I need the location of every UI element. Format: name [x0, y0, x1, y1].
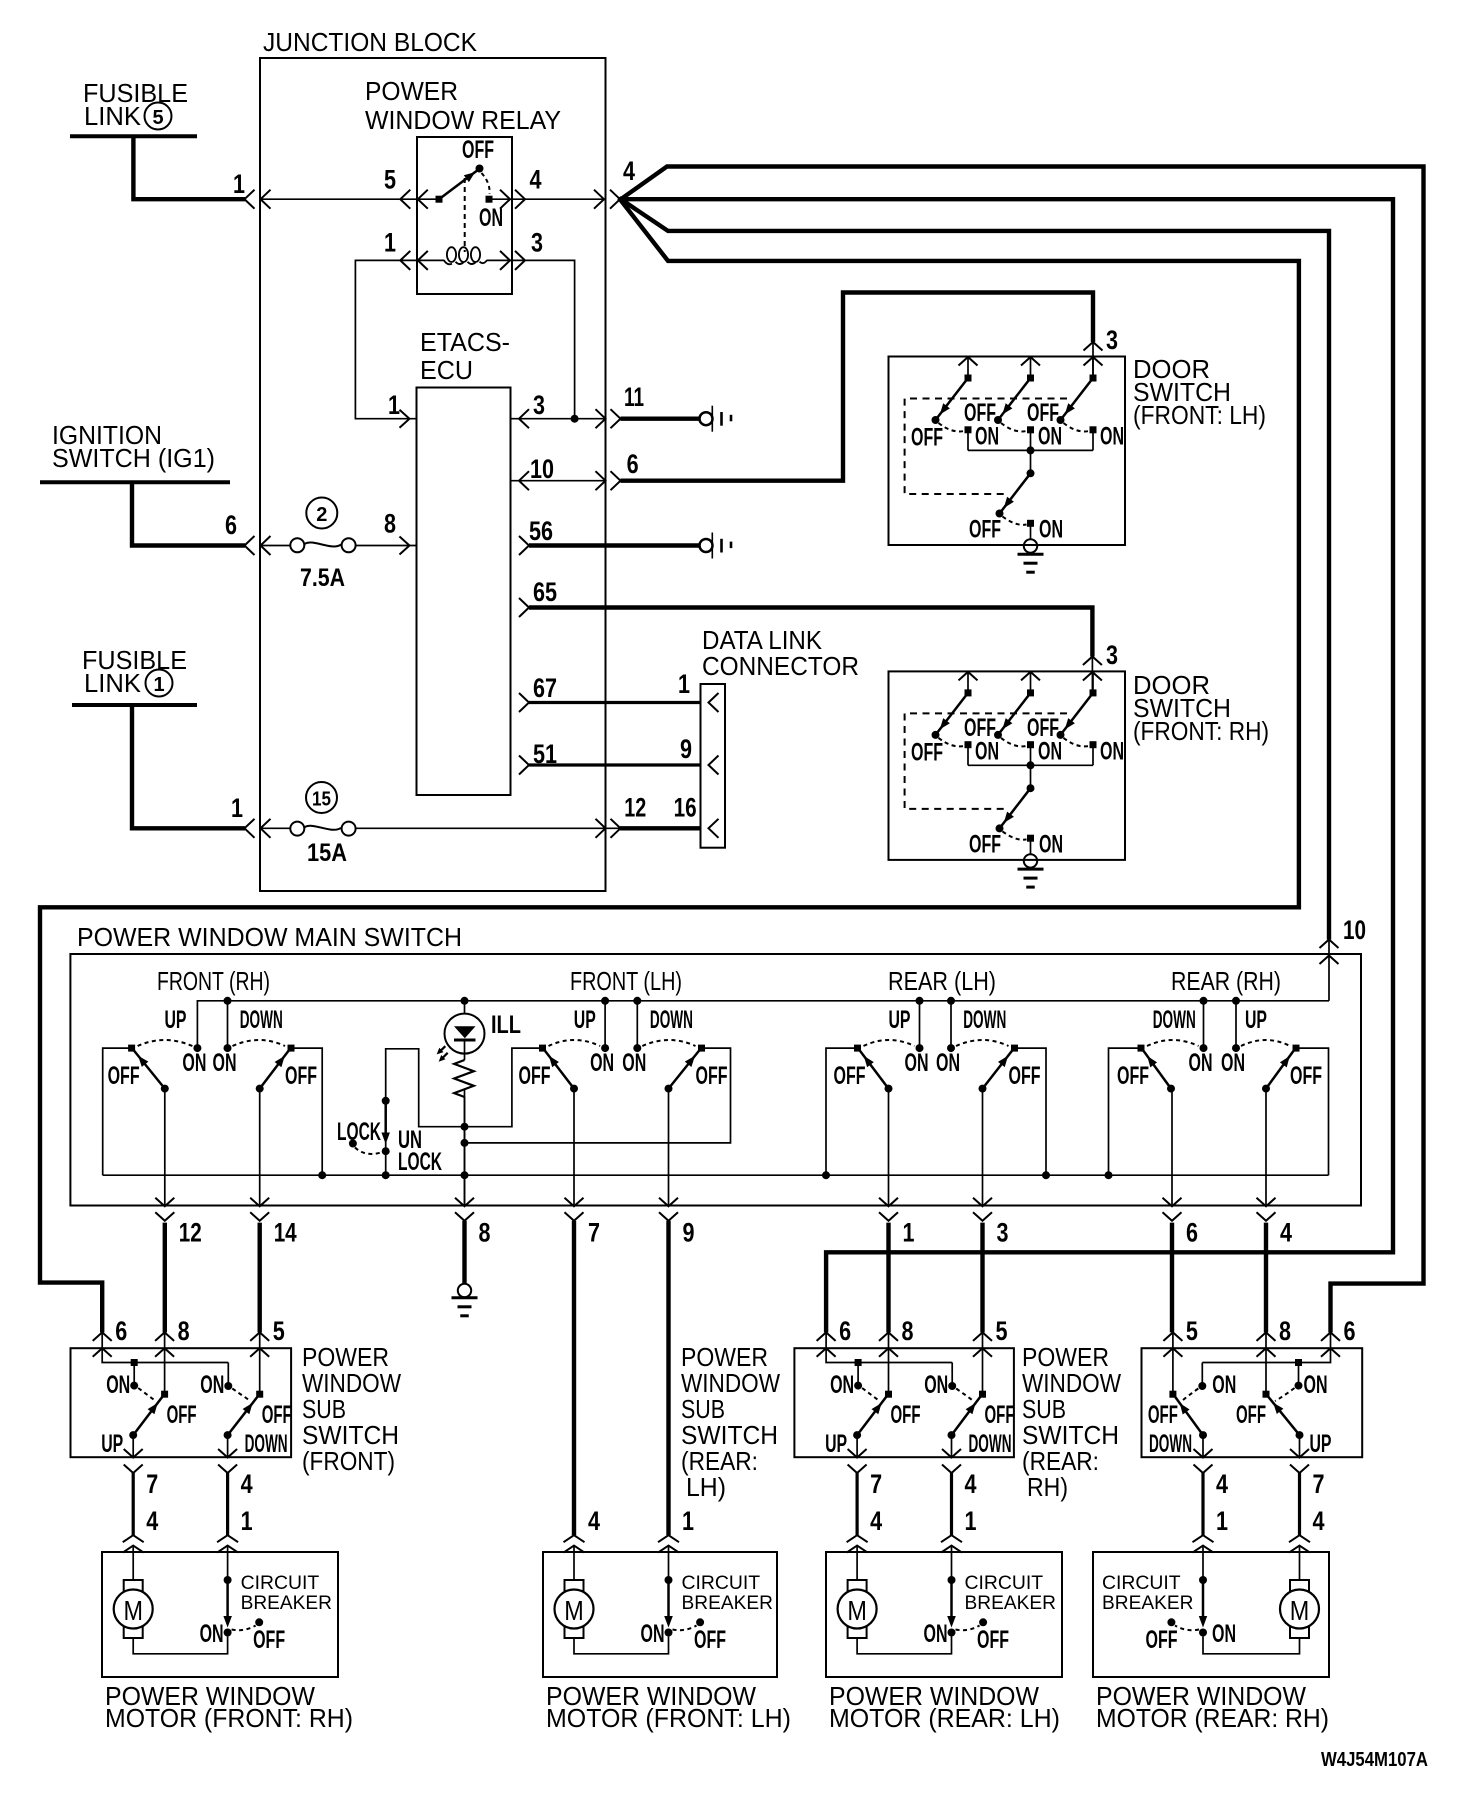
power window sub switch rear LH internal bus — [826, 1332, 952, 1362]
power window motor rear RH motor return wire — [1203, 1637, 1300, 1654]
svg-text:CIRCUIT: CIRCUIT — [965, 1572, 1044, 1594]
relay OFF contact — [476, 165, 484, 173]
svg-text:6: 6 — [225, 510, 237, 540]
svg-text:5: 5 — [1186, 1316, 1198, 1346]
relay switch pivot contact — [436, 196, 443, 203]
svg-text:DOWN: DOWN — [1149, 1430, 1192, 1458]
wire main switch 7 to front LH motor — [572, 1221, 576, 1535]
svg-text:10: 10 — [1343, 915, 1366, 945]
ECU pin 3 wire to connector — [510, 418, 605, 420]
svg-text:1: 1 — [1216, 1506, 1228, 1536]
fusible link 5 supply bar — [70, 134, 197, 138]
svg-text:4: 4 — [588, 1506, 600, 1536]
wire junction block to relay pin 5 — [262, 198, 437, 200]
door switch RH plunger pin 2 — [1021, 672, 1040, 681]
svg-text:ON: ON — [200, 1371, 224, 1399]
chevron into DLC pin 16 — [709, 819, 719, 838]
power window motor front LH motor symbol — [565, 1580, 584, 1638]
svg-text:8: 8 — [1279, 1316, 1291, 1346]
main switch front RH box — [103, 1048, 132, 1175]
svg-text:ON: ON — [590, 1049, 614, 1077]
svg-text:67: 67 — [533, 673, 557, 703]
svg-text:OFF: OFF — [462, 136, 494, 164]
svg-text:3: 3 — [531, 228, 543, 258]
svg-text:OFF: OFF — [285, 1062, 317, 1090]
svg-text:ON: ON — [1039, 830, 1063, 858]
main switch front LH contacts — [539, 1045, 546, 1052]
ECU pin 67 wire to DLC pin 1 — [519, 693, 529, 712]
svg-text:1: 1 — [965, 1506, 977, 1536]
svg-text:W4J54M107A: W4J54M107A — [1321, 1749, 1428, 1771]
ECU pin 51 wire to DLC pin 9 — [519, 756, 529, 775]
fuse 15 circle label — [306, 782, 337, 813]
svg-text:OFF: OFF — [834, 1062, 866, 1090]
svg-text:ON: ON — [182, 1049, 206, 1077]
svg-text:DOWN: DOWN — [969, 1430, 1012, 1458]
data link connector box — [701, 684, 726, 848]
door switch RH ON contact 2 — [1027, 741, 1034, 748]
power window sub switch rear RH switch arms — [1296, 1431, 1304, 1439]
main switch front LH switch arms — [570, 1085, 578, 1093]
svg-text:CIRCUIT: CIRCUIT — [1102, 1572, 1181, 1594]
wire relay pin1 to ECU pin1 — [355, 260, 417, 418]
svg-text:OFF: OFF — [1146, 1626, 1178, 1654]
power window sub switch rear LH dashed arcs — [862, 1388, 879, 1401]
relay ON contact — [486, 196, 493, 203]
svg-text:ETACS-: ETACS- — [420, 327, 510, 357]
main switch front RH contacts — [128, 1045, 135, 1052]
svg-text:ON: ON — [1038, 423, 1062, 451]
svg-text:(FRONT): (FRONT) — [302, 1446, 395, 1476]
door switch LH dashed arc 1 — [939, 423, 965, 431]
svg-text:M: M — [564, 1595, 584, 1626]
svg-text:4: 4 — [623, 156, 635, 186]
main switch front RH dashed arcs — [138, 1040, 193, 1046]
door LH pin 3 chevrons — [1084, 342, 1103, 351]
junction block outline — [260, 58, 606, 891]
svg-text:1: 1 — [384, 228, 396, 258]
svg-text:6: 6 — [1344, 1316, 1356, 1346]
main switch rear LH ON stubs — [919, 1001, 921, 1048]
svg-text:3: 3 — [997, 1218, 1009, 1248]
main switch rear LH contacts — [854, 1045, 861, 1052]
door switch LH ON contact 1 — [965, 426, 972, 433]
svg-text:OFF: OFF — [969, 830, 1001, 858]
door switch LH plunger pin 3 — [1092, 357, 1094, 378]
svg-text:ON: ON — [830, 1371, 854, 1399]
main switch rear LH switch arms — [885, 1085, 893, 1093]
svg-text:BREAKER: BREAKER — [682, 1592, 773, 1614]
svg-text:ON: ON — [924, 1371, 948, 1399]
svg-text:UP: UP — [101, 1430, 123, 1458]
wire relay pin3 down to ECU pin3 net — [512, 260, 575, 418]
svg-text:DOWN: DOWN — [1153, 1006, 1196, 1034]
power window motor front LH motor feed wires — [573, 1552, 575, 1580]
power window sub switch front outputs — [132, 1435, 134, 1457]
door switch RH lower ON contact — [1027, 835, 1034, 842]
connector chevrons y825 at junction right edge — [596, 819, 606, 838]
svg-text:1: 1 — [678, 669, 690, 699]
svg-text:ON: ON — [641, 1620, 665, 1648]
svg-text:8: 8 — [384, 509, 396, 539]
svg-text:ON: ON — [924, 1620, 948, 1648]
door switch LH plunger pin 1 — [959, 357, 978, 366]
relay OFF-to-ON dashed arc — [482, 173, 490, 194]
svg-text:OFF: OFF — [108, 1062, 140, 1090]
relay actuating dashed link — [464, 178, 466, 252]
ECU pin 10 wire — [510, 480, 605, 482]
svg-text:UP: UP — [1310, 1430, 1332, 1458]
svg-text:ON: ON — [1304, 1371, 1328, 1399]
main switch pin 8 ground wire — [462, 1221, 466, 1285]
main switch rear RH box — [1109, 1048, 1142, 1175]
relay switch arm — [439, 170, 478, 199]
svg-text:WINDOW RELAY: WINDOW RELAY — [365, 105, 561, 135]
power window sub switch rear RH internal bus — [1202, 1332, 1330, 1362]
svg-text:UP: UP — [825, 1430, 847, 1458]
power window sub switch rear RH outputs — [1299, 1435, 1301, 1457]
power window sub switch front internal bus — [102, 1332, 228, 1362]
svg-text:8: 8 — [902, 1316, 914, 1346]
ground symbol for pin 8 — [458, 1284, 471, 1297]
fusible link 5 circle — [145, 103, 172, 130]
main switch rear RH dashed arcs — [1147, 1040, 1199, 1046]
svg-text:14: 14 — [274, 1218, 297, 1248]
main switch front LH dashed arcs — [549, 1040, 601, 1046]
svg-text:5: 5 — [996, 1316, 1008, 1346]
door switch RH ON contact 1 — [965, 741, 972, 748]
fusible link 1 circle — [146, 670, 173, 697]
main switch rear LH box — [826, 1048, 858, 1175]
power window motor front RH motor feed wires — [132, 1552, 134, 1580]
ILL lamp — [461, 997, 469, 1005]
main switch front LH ON stubs — [604, 1001, 606, 1048]
power window relay box — [417, 137, 512, 294]
svg-text:OFF: OFF — [167, 1401, 197, 1429]
svg-text:OFF: OFF — [911, 424, 943, 452]
door switch LH dashed arc 3 — [1064, 423, 1090, 431]
svg-text:JUNCTION BLOCK: JUNCTION BLOCK — [263, 27, 478, 57]
svg-text:RH): RH) — [1027, 1472, 1068, 1502]
svg-text:OFF: OFF — [519, 1062, 551, 1090]
main switch output 8 — [464, 1089, 466, 1207]
svg-text:3: 3 — [1106, 325, 1118, 355]
svg-text:ON: ON — [106, 1371, 130, 1399]
fuse 15 symbol — [261, 827, 291, 829]
svg-text:4: 4 — [870, 1506, 882, 1536]
svg-text:(FRONT: LH): (FRONT: LH) — [1133, 400, 1266, 430]
svg-text:FRONT (RH): FRONT (RH) — [157, 966, 270, 996]
door RH pin 3 chevrons — [1083, 657, 1102, 666]
fusible link 1 supply bar — [72, 703, 197, 707]
door switch LH plunger pin 2 — [1021, 357, 1040, 366]
svg-text:4: 4 — [530, 165, 542, 195]
svg-text:12: 12 — [179, 1218, 202, 1248]
relay coil — [418, 259, 445, 261]
svg-text:OFF: OFF — [977, 1626, 1009, 1654]
door switch RH dashed arc 3 — [1064, 738, 1090, 746]
door switch LH dashed linkage box — [905, 399, 1067, 495]
svg-text:CIRCUIT: CIRCUIT — [241, 1572, 320, 1594]
door switch LH arm 3 — [1061, 378, 1094, 420]
svg-text:5: 5 — [152, 107, 163, 129]
junction dot on pin3 net — [571, 415, 579, 423]
main switch rear LH dashed arcs — [864, 1040, 915, 1046]
svg-text:SWITCH (IG1): SWITCH (IG1) — [52, 443, 215, 473]
svg-text:6: 6 — [839, 1316, 851, 1346]
power window motor rear LH motor feed wires — [856, 1552, 858, 1580]
door switch RH dashed arc 1 — [939, 738, 965, 746]
svg-text:LINK: LINK — [84, 668, 142, 698]
door switch RH dashed arc 2 — [1001, 738, 1027, 746]
door switch (front RH) box — [889, 671, 1126, 860]
main switch output 14 — [259, 1089, 261, 1207]
svg-text:4: 4 — [965, 1469, 977, 1499]
power window motor rear RH motor feed wires — [1299, 1552, 1301, 1580]
svg-text:UP: UP — [165, 1006, 187, 1034]
fuse 2 circle label — [306, 498, 337, 529]
svg-text:5: 5 — [273, 1316, 285, 1346]
power window sub switch front dashed arcs — [138, 1388, 155, 1401]
door switch RH dashed linkage box — [905, 713, 1067, 809]
power window motor rear LH box — [826, 1552, 1062, 1677]
power window motor rear LH motor symbol — [848, 1580, 867, 1638]
svg-text:2: 2 — [316, 504, 327, 526]
power window motor front RH motor symbol — [124, 1580, 143, 1638]
svg-text:4: 4 — [1313, 1506, 1325, 1536]
power window sub switch rear RH box — [1142, 1348, 1363, 1457]
svg-text:DOWN: DOWN — [245, 1430, 288, 1458]
svg-text:BREAKER: BREAKER — [241, 1592, 332, 1614]
svg-text:MOTOR (FRONT: RH): MOTOR (FRONT: RH) — [105, 1703, 353, 1733]
main switch output 12 — [164, 1089, 166, 1207]
svg-text:1: 1 — [903, 1218, 915, 1248]
svg-text:5: 5 — [384, 165, 396, 195]
svg-text:ON: ON — [1039, 516, 1063, 544]
wire node4 fan line 3 (to main switch pin 10) — [619, 198, 1329, 940]
door switch RH ON bus — [968, 764, 1093, 766]
svg-text:OFF: OFF — [262, 1401, 292, 1429]
power window motor front RH circuit breaker — [224, 1576, 232, 1584]
svg-text:1: 1 — [233, 169, 245, 199]
main switch power bus — [197, 1001, 1329, 1048]
wire node4 fan line 1 (to rear RH sub switch pin 6) — [619, 167, 1424, 1333]
svg-text:7: 7 — [1313, 1469, 1325, 1499]
svg-text:ON: ON — [975, 423, 999, 451]
svg-text:6: 6 — [627, 449, 639, 479]
power window sub switch rear LH pin entries — [817, 1332, 836, 1341]
half connector pin 11 — [700, 412, 713, 425]
svg-text:9: 9 — [683, 1218, 695, 1248]
power window sub switch front switch arms — [129, 1431, 137, 1439]
power window motor rear LH circuit breaker — [948, 1576, 956, 1584]
svg-text:OFF: OFF — [253, 1626, 285, 1654]
svg-text:1: 1 — [231, 793, 243, 823]
power window motor front LH box — [543, 1552, 777, 1677]
wire pin6 to door switch front LH — [621, 293, 1094, 481]
power window motor rear RH circuit breaker — [1199, 1576, 1207, 1584]
svg-text:4: 4 — [241, 1469, 253, 1499]
main switch rear RH ON stubs — [1203, 1001, 1205, 1048]
svg-text:ON: ON — [975, 737, 999, 765]
svg-text:7: 7 — [146, 1469, 158, 1499]
svg-text:1: 1 — [241, 1506, 253, 1536]
svg-text:LOCK: LOCK — [337, 1118, 381, 1146]
svg-text:11: 11 — [624, 382, 644, 412]
power window motor front LH circuit breaker — [665, 1576, 673, 1584]
half connector pin 56 — [700, 539, 713, 552]
svg-text:ON: ON — [1038, 737, 1062, 765]
svg-text:DOWN: DOWN — [963, 1006, 1006, 1034]
lock switch wiring — [386, 1049, 465, 1175]
svg-text:1: 1 — [682, 1506, 694, 1536]
ETACS-ECU box — [417, 388, 511, 796]
svg-text:15: 15 — [312, 789, 331, 811]
door switch RH plunger pin 3 — [1092, 672, 1094, 693]
main switch front RH switch arms — [161, 1085, 169, 1093]
svg-text:REAR (LH): REAR (LH) — [888, 966, 996, 996]
main switch output 9 — [668, 1089, 670, 1207]
svg-text:1: 1 — [153, 674, 164, 696]
svg-text:ON: ON — [1100, 737, 1124, 765]
svg-text:LOCK: LOCK — [398, 1148, 442, 1176]
svg-text:ON: ON — [905, 1049, 929, 1077]
svg-text:M: M — [1290, 1595, 1310, 1626]
door switch RH lower switch — [1030, 765, 1032, 788]
svg-text:CONNECTOR: CONNECTOR — [702, 651, 859, 681]
svg-text:7: 7 — [588, 1218, 600, 1248]
arrow into ECU pin 8 — [400, 537, 410, 555]
svg-text:ON: ON — [200, 1620, 224, 1648]
svg-text:9: 9 — [680, 734, 692, 764]
wire main switch 9 to front LH motor — [666, 1221, 670, 1535]
thick wire junction to DLC pin16 — [620, 826, 701, 830]
svg-text:10: 10 — [530, 454, 554, 484]
power window sub switch rear LH outputs — [856, 1435, 858, 1457]
svg-text:ON: ON — [1212, 1620, 1236, 1648]
door switch LH ON bus — [968, 449, 1093, 451]
svg-text:ON: ON — [1212, 1371, 1236, 1399]
svg-text:LH): LH) — [686, 1472, 726, 1502]
svg-text:MOTOR (REAR: LH): MOTOR (REAR: LH) — [829, 1703, 1060, 1733]
connector chevrons at junction edge y545 — [245, 536, 255, 555]
power window sub switch rear LH switch arms — [853, 1431, 861, 1439]
svg-text:BREAKER: BREAKER — [1102, 1592, 1193, 1614]
power window sub switch front pin entries — [93, 1332, 112, 1341]
power window motor rear RH box — [1093, 1552, 1329, 1677]
power window sub switch rear RH dashed arcs — [1275, 1388, 1295, 1401]
svg-text:12: 12 — [624, 792, 646, 822]
svg-text:4: 4 — [1280, 1218, 1292, 1248]
door switch (front LH) box — [889, 357, 1126, 546]
svg-text:M: M — [123, 1595, 143, 1626]
connector chevrons main switch pin 10 — [1320, 940, 1339, 949]
svg-text:56: 56 — [529, 516, 553, 546]
main switch output 1 — [888, 1089, 890, 1207]
main switch front RH ON stubs — [227, 1001, 229, 1048]
main switch OFF bottom bus — [103, 1174, 1329, 1176]
svg-text:FRONT (LH): FRONT (LH) — [570, 966, 682, 996]
power window sub switch rear RH pin entries — [1321, 1332, 1340, 1341]
main switch pin 10 wire inside box — [1328, 940, 1330, 1001]
svg-text:1: 1 — [388, 390, 400, 420]
svg-text:ON: ON — [936, 1049, 960, 1077]
power window sub switch front OFF contacts on feed wires — [164, 1332, 166, 1394]
svg-text:7: 7 — [870, 1469, 882, 1499]
door switch LH ground — [1024, 539, 1037, 552]
power window sub switch front box — [71, 1348, 292, 1457]
power window motor front RH motor return wire — [133, 1637, 227, 1654]
lock switch contacts — [382, 1097, 390, 1105]
svg-text:ON: ON — [1100, 423, 1124, 451]
svg-text:3: 3 — [1106, 640, 1118, 670]
svg-text:OFF: OFF — [985, 1401, 1015, 1429]
wire ignition switch to junction block pin 6 — [132, 482, 245, 545]
door switch LH arm 2 — [998, 378, 1031, 420]
door switch LH dashed arc 2 — [1001, 423, 1027, 431]
svg-text:REAR (RH): REAR (RH) — [1171, 966, 1281, 996]
main switch front LH box edges — [465, 1048, 543, 1127]
main switch rear RH contacts — [1138, 1045, 1145, 1052]
ILL resistor — [454, 1060, 474, 1097]
svg-text:(FRONT: RH): (FRONT: RH) — [1133, 716, 1269, 746]
svg-text:ON: ON — [622, 1049, 646, 1077]
wire fuse 15 to data link connector pin 16 — [356, 827, 701, 829]
svg-text:OFF: OFF — [1009, 1062, 1041, 1090]
wire relay pin 4 to junction block edge — [489, 198, 606, 200]
svg-text:OFF: OFF — [969, 516, 1001, 544]
svg-text:DOWN: DOWN — [650, 1006, 693, 1034]
svg-text:MOTOR (FRONT: LH): MOTOR (FRONT: LH) — [546, 1703, 791, 1733]
lock dashed arc — [355, 1148, 381, 1154]
svg-text:CIRCUIT: CIRCUIT — [682, 1572, 761, 1594]
svg-text:ILL: ILL — [491, 1011, 521, 1039]
svg-text:65: 65 — [533, 577, 557, 607]
svg-text:ON: ON — [1221, 1049, 1245, 1077]
door switch RH plunger pin 1 — [959, 672, 978, 681]
power window sub switch rear LH OFF contacts on feed wires — [888, 1332, 890, 1394]
svg-text:ON: ON — [213, 1049, 237, 1077]
svg-text:4: 4 — [1216, 1469, 1228, 1499]
power window motor front RH box — [102, 1552, 338, 1677]
connector chevrons relay pin4 / junction edge y199 — [500, 190, 510, 209]
svg-text:16: 16 — [674, 792, 697, 822]
svg-text:OFF: OFF — [891, 1401, 921, 1429]
ignition switch supply bar — [40, 480, 230, 484]
door switch RH ground — [1024, 854, 1037, 867]
power window main switch outer box — [70, 954, 1361, 1206]
svg-text:3: 3 — [533, 390, 545, 420]
svg-text:7.5A: 7.5A — [300, 564, 345, 592]
svg-text:ON: ON — [1189, 1049, 1213, 1077]
door switch LH arm 1 — [936, 378, 969, 420]
connector chevrons at relay pin 5 — [400, 190, 410, 209]
power window motor front LH motor return wire — [574, 1637, 669, 1654]
door switch RH arm 3 — [1061, 693, 1094, 735]
svg-text:MOTOR (REAR: RH): MOTOR (REAR: RH) — [1096, 1703, 1329, 1733]
svg-text:OFF: OFF — [1148, 1401, 1178, 1429]
main switch output 6 — [1171, 1089, 1173, 1207]
svg-text:UP: UP — [1245, 1006, 1267, 1034]
ILL light rays — [439, 1046, 446, 1053]
svg-text:OFF: OFF — [1290, 1062, 1322, 1090]
door switch LH lower switch — [1030, 450, 1032, 473]
fuse 2 symbol — [261, 545, 291, 547]
svg-text:M: M — [847, 1595, 867, 1626]
svg-text:OFF: OFF — [911, 738, 943, 766]
main switch rear RH switch arms — [1167, 1085, 1175, 1093]
ILL ground node dots — [461, 1123, 469, 1131]
